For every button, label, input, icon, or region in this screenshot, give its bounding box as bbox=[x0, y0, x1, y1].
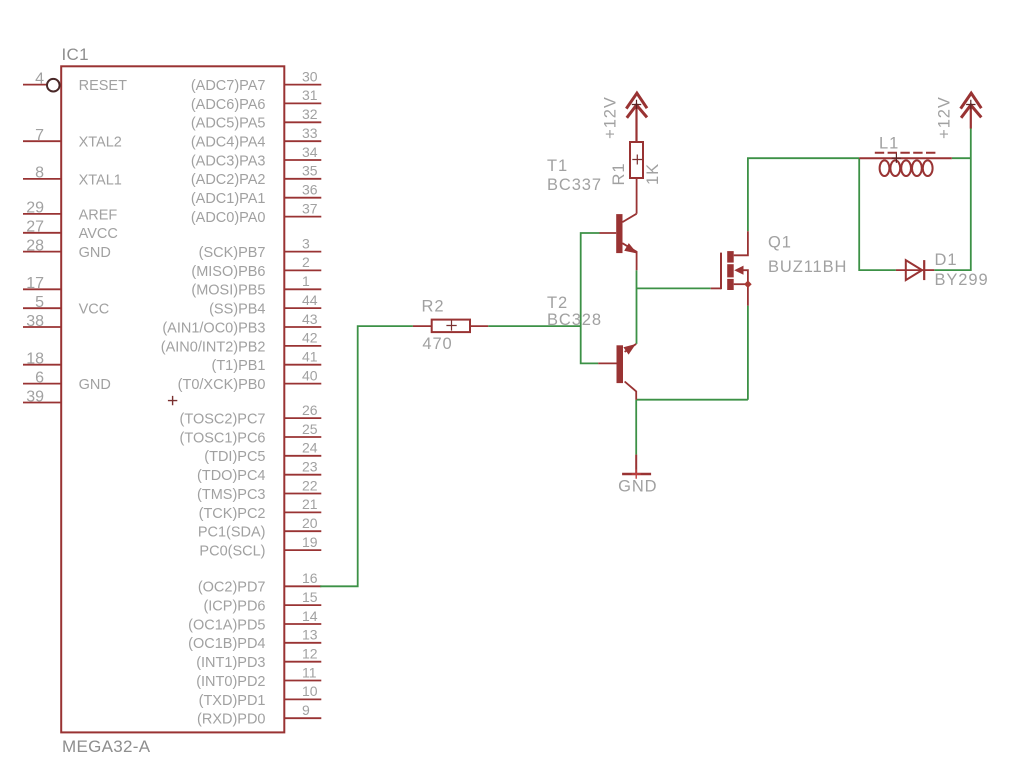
svg-text:10: 10 bbox=[302, 683, 318, 699]
svg-text:(TOSC2)PC7: (TOSC2)PC7 bbox=[180, 412, 266, 428]
IC1 name label bbox=[62, 45, 89, 64]
svg-text:(INT1)PD3: (INT1)PD3 bbox=[196, 655, 265, 671]
pin 1 (MOSI)PB5 (right) bbox=[191, 273, 321, 299]
svg-text:IC1: IC1 bbox=[62, 45, 89, 64]
svg-text:L1: L1 bbox=[879, 135, 899, 153]
svg-text:BC328: BC328 bbox=[547, 311, 602, 329]
pin 26 (TOSC2)PC7 (right) bbox=[180, 402, 322, 428]
svg-text:5: 5 bbox=[35, 294, 44, 311]
supply +12V (right) bbox=[936, 93, 982, 139]
svg-text:(T1)PB1: (T1)PB1 bbox=[212, 358, 266, 374]
pin 5 VCC (left) bbox=[23, 294, 109, 318]
svg-text:Q1: Q1 bbox=[768, 234, 792, 252]
pin 38 NC (left) bbox=[23, 313, 61, 330]
pin 34 (ADC3)PA3 (right) bbox=[191, 144, 321, 170]
pin 32 (ADC5)PA5 (right) bbox=[191, 106, 321, 132]
svg-text:(OC2)PD7: (OC2)PD7 bbox=[198, 580, 266, 596]
svg-text:GND: GND bbox=[79, 377, 111, 393]
pin 35 (ADC2)PA2 (right) bbox=[191, 163, 321, 189]
svg-text:VCC: VCC bbox=[79, 302, 110, 318]
pin 33 (ADC4)PA4 (right) bbox=[191, 125, 321, 151]
svg-text:34: 34 bbox=[302, 144, 318, 160]
svg-text:(T0/XCK)PB0: (T0/XCK)PB0 bbox=[178, 377, 266, 393]
svg-text:1K: 1K bbox=[644, 163, 662, 185]
svg-text:14: 14 bbox=[302, 608, 318, 624]
svg-text:21: 21 bbox=[302, 496, 318, 512]
pin 31 (ADC6)PA6 (right) bbox=[191, 87, 321, 113]
svg-text:35: 35 bbox=[302, 163, 318, 179]
svg-text:BC337: BC337 bbox=[547, 176, 602, 194]
svg-text:T1: T1 bbox=[547, 157, 568, 175]
wire L1 left down to D1 anode bbox=[859, 158, 896, 270]
svg-text:18: 18 bbox=[26, 351, 44, 368]
svg-text:9: 9 bbox=[302, 702, 310, 718]
svg-text:11: 11 bbox=[302, 664, 317, 680]
wire R2 right to base node bbox=[488, 325, 581, 327]
transistor Q1 BUZ11BH (N-MOSFET) bbox=[711, 231, 848, 305]
svg-text:T2: T2 bbox=[547, 294, 568, 312]
pin 10 (TXD)PD1 (right) bbox=[199, 683, 322, 709]
pin 29 AREF (left) bbox=[23, 200, 117, 224]
svg-text:13: 13 bbox=[302, 627, 318, 643]
transistor T1 BC337 (NPN) bbox=[547, 157, 637, 270]
pin 2 (MISO)PB6 (right) bbox=[191, 254, 321, 280]
svg-text:(ADC7)PA7: (ADC7)PA7 bbox=[191, 78, 266, 94]
pin 25 (TOSC1)PC6 (right) bbox=[180, 421, 322, 447]
svg-text:37: 37 bbox=[302, 200, 318, 216]
IC IC1 MEGA32-A body bbox=[61, 66, 284, 732]
svg-text:24: 24 bbox=[302, 440, 318, 456]
svg-text:17: 17 bbox=[26, 275, 44, 292]
svg-text:AVCC: AVCC bbox=[79, 226, 118, 242]
svg-text:20: 20 bbox=[302, 515, 318, 531]
pin 39 NC (left) bbox=[23, 388, 61, 405]
svg-text:(RXD)PD0: (RXD)PD0 bbox=[197, 712, 265, 728]
svg-text:BY299: BY299 bbox=[935, 271, 989, 289]
svg-text:39: 39 bbox=[26, 388, 44, 405]
svg-text:2: 2 bbox=[302, 254, 310, 270]
svg-text:PC0(SCL): PC0(SCL) bbox=[199, 544, 265, 560]
svg-text:7: 7 bbox=[35, 127, 44, 144]
svg-text:44: 44 bbox=[302, 292, 318, 308]
pin 7 XTAL2 (left) bbox=[23, 127, 122, 151]
wire R1 bottom to T1 collector bbox=[636, 178, 638, 214]
IC1 origin cross bbox=[168, 396, 177, 405]
svg-text:19: 19 bbox=[302, 534, 318, 550]
pin 28 GND (left) bbox=[23, 237, 111, 261]
pin 19 PC0(SCL) (right) bbox=[199, 534, 321, 560]
pin 36 (ADC1)PA1 (right) bbox=[191, 182, 321, 208]
pin 4 RESET (left) bbox=[23, 70, 127, 94]
pin 21 (TCK)PC2 (right) bbox=[199, 496, 322, 522]
svg-text:(AIN0/INT2)PB2: (AIN0/INT2)PB2 bbox=[161, 339, 266, 355]
svg-text:D1: D1 bbox=[935, 251, 958, 269]
svg-text:32: 32 bbox=[302, 106, 318, 122]
svg-text:(MISO)PB6: (MISO)PB6 bbox=[191, 264, 265, 280]
wire base bus vertical T1/T2 bbox=[581, 233, 600, 363]
svg-text:AREF: AREF bbox=[79, 207, 118, 223]
svg-text:RESET: RESET bbox=[79, 78, 127, 94]
ground GND symbol bbox=[618, 455, 657, 496]
svg-text:4: 4 bbox=[35, 70, 44, 87]
svg-text:+12V: +12V bbox=[601, 96, 619, 139]
svg-text:(ADC4)PA4: (ADC4)PA4 bbox=[191, 135, 266, 151]
svg-text:(TMS)PC3: (TMS)PC3 bbox=[197, 487, 265, 503]
pin 20 PC1(SDA) (right) bbox=[198, 515, 321, 541]
svg-text:(ADC5)PA5: (ADC5)PA5 bbox=[191, 116, 266, 132]
svg-text:GND: GND bbox=[618, 478, 657, 496]
svg-text:(ADC0)PA0: (ADC0)PA0 bbox=[191, 210, 266, 226]
svg-text:(OC1A)PD5: (OC1A)PD5 bbox=[188, 617, 265, 633]
svg-text:+12V: +12V bbox=[936, 96, 954, 139]
svg-text:26: 26 bbox=[302, 402, 318, 418]
pin 11 (INT0)PD2 (right) bbox=[196, 664, 321, 690]
svg-text:(SCK)PB7: (SCK)PB7 bbox=[199, 245, 266, 261]
svg-text:470: 470 bbox=[422, 335, 452, 353]
svg-text:15: 15 bbox=[302, 589, 318, 605]
svg-text:(TCK)PC2: (TCK)PC2 bbox=[199, 506, 266, 522]
wire +12V down to D1 cathode bbox=[934, 128, 971, 270]
svg-text:38: 38 bbox=[26, 313, 44, 330]
svg-text:25: 25 bbox=[302, 421, 318, 437]
wire Q1 drain to L1 left bbox=[748, 158, 859, 231]
svg-text:(TXD)PD1: (TXD)PD1 bbox=[199, 693, 266, 709]
pin 8 XTAL1 (left) bbox=[23, 165, 122, 189]
transistor T2 BC328 (PNP) bbox=[547, 294, 636, 400]
svg-text:1: 1 bbox=[302, 273, 310, 289]
pin 17 NC (left) bbox=[23, 275, 61, 292]
pin 24 (TDI)PC5 (right) bbox=[204, 440, 321, 466]
wire emitter junction to Q1 gate bbox=[637, 270, 711, 344]
pin 9 (RXD)PD0 (right) bbox=[197, 702, 321, 728]
svg-text:PC1(SDA): PC1(SDA) bbox=[198, 525, 266, 541]
pin 23 (TDO)PC4 (right) bbox=[197, 459, 321, 485]
svg-text:8: 8 bbox=[35, 165, 44, 182]
diode D1 BY299 bbox=[896, 251, 989, 289]
wire L1 right to +12V bbox=[952, 157, 971, 159]
svg-text:MEGA32-A: MEGA32-A bbox=[62, 737, 151, 756]
svg-text:40: 40 bbox=[302, 367, 318, 383]
svg-text:(INT0)PD2: (INT0)PD2 bbox=[196, 674, 265, 690]
pin 30 (ADC7)PA7 (right) bbox=[191, 68, 321, 94]
svg-text:27: 27 bbox=[26, 219, 44, 236]
svg-text:XTAL1: XTAL1 bbox=[79, 172, 122, 188]
pin 43 (AIN1/OC0)PB3 (right) bbox=[162, 311, 321, 337]
pin 14 (OC1A)PD5 (right) bbox=[188, 608, 321, 634]
svg-text:43: 43 bbox=[302, 311, 318, 327]
svg-text:R2: R2 bbox=[422, 298, 445, 316]
svg-text:33: 33 bbox=[302, 125, 318, 141]
svg-text:42: 42 bbox=[302, 330, 318, 346]
pin 44 (SS)PB4 (right) bbox=[209, 292, 321, 318]
pin 40 (T0/XCK)PB0 (right) bbox=[178, 367, 322, 393]
svg-text:(TOSC1)PC6: (TOSC1)PC6 bbox=[180, 430, 266, 446]
pin 18 NC (left) bbox=[23, 351, 61, 368]
wire pin16 PD7 to R2 left bbox=[320, 326, 413, 586]
svg-text:(ADC3)PA3: (ADC3)PA3 bbox=[191, 153, 266, 169]
svg-text:GND: GND bbox=[79, 245, 111, 261]
svg-text:(ICP)PD6: (ICP)PD6 bbox=[203, 599, 265, 615]
supply +12V (left, above R1) bbox=[601, 93, 647, 142]
svg-text:41: 41 bbox=[302, 349, 318, 365]
svg-text:3: 3 bbox=[302, 235, 310, 251]
svg-text:(TDI)PC5: (TDI)PC5 bbox=[204, 449, 265, 465]
svg-text:22: 22 bbox=[302, 477, 318, 493]
svg-text:(ADC1)PA1: (ADC1)PA1 bbox=[191, 191, 266, 207]
svg-text:30: 30 bbox=[302, 68, 318, 84]
pin 15 (ICP)PD6 (right) bbox=[203, 589, 321, 615]
resistor R1 1K bbox=[610, 142, 662, 185]
svg-text:31: 31 bbox=[302, 87, 318, 103]
svg-text:12: 12 bbox=[302, 646, 318, 662]
resistor R2 470 bbox=[413, 298, 488, 353]
pin 16 (OC2)PD7 (right) bbox=[198, 570, 321, 596]
svg-text:36: 36 bbox=[302, 182, 318, 198]
pin 37 (ADC0)PA0 (right) bbox=[191, 200, 321, 226]
svg-text:(MOSI)PB5: (MOSI)PB5 bbox=[191, 283, 265, 299]
svg-text:(SS)PB4: (SS)PB4 bbox=[209, 302, 265, 318]
svg-text:BUZ11BH: BUZ11BH bbox=[768, 258, 847, 276]
svg-text:(ADC6)PA6: (ADC6)PA6 bbox=[191, 97, 266, 113]
pin 42 (AIN0/INT2)PB2 (right) bbox=[161, 330, 322, 356]
pin 27 AVCC (left) bbox=[23, 219, 118, 243]
IC1 value label MEGA32-A bbox=[62, 737, 151, 756]
svg-text:6: 6 bbox=[35, 369, 44, 386]
wire source return / GND node bbox=[636, 306, 748, 455]
pin 6 GND (left) bbox=[23, 369, 111, 393]
pin 12 (INT1)PD3 (right) bbox=[196, 646, 321, 672]
svg-text:23: 23 bbox=[302, 459, 318, 475]
pin 3 (SCK)PB7 (right) bbox=[199, 235, 322, 261]
svg-text:16: 16 bbox=[302, 570, 318, 586]
svg-text:(AIN1/OC0)PB3: (AIN1/OC0)PB3 bbox=[162, 320, 265, 336]
inductor L1 bbox=[859, 135, 952, 177]
pin 22 (TMS)PC3 (right) bbox=[197, 477, 321, 503]
pin 13 (OC1B)PD4 (right) bbox=[188, 627, 321, 653]
svg-text:29: 29 bbox=[26, 200, 44, 217]
svg-text:XTAL2: XTAL2 bbox=[79, 135, 122, 151]
svg-text:28: 28 bbox=[26, 237, 44, 254]
svg-text:R1: R1 bbox=[610, 163, 628, 186]
pin 41 (T1)PB1 (right) bbox=[212, 349, 322, 375]
svg-text:(TDO)PC4: (TDO)PC4 bbox=[197, 468, 265, 484]
svg-text:(OC1B)PD4: (OC1B)PD4 bbox=[188, 636, 265, 652]
svg-text:(ADC2)PA2: (ADC2)PA2 bbox=[191, 172, 266, 188]
